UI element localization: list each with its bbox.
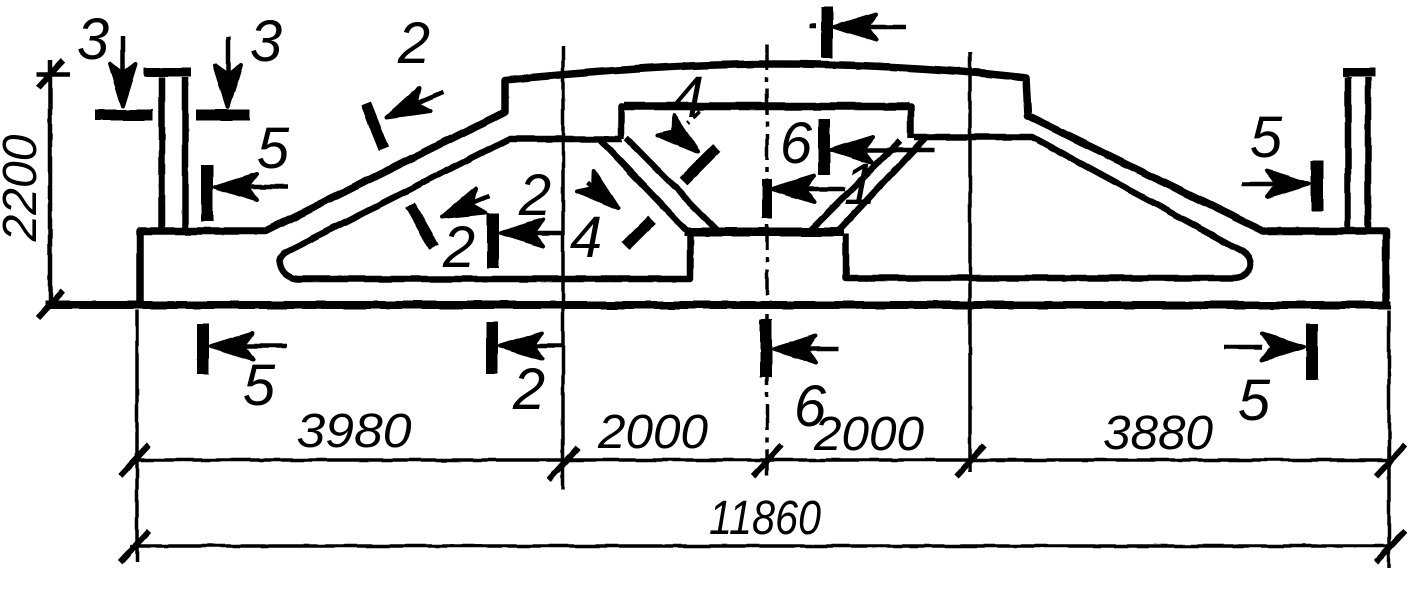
section mark 3 left: bar and down arrow <box>95 110 153 121</box>
node section line at x=970 <box>968 52 972 472</box>
section mark 5 right below slab: bar and right arrow <box>1306 324 1318 380</box>
svg-text:6: 6 <box>780 111 813 176</box>
svg-text:2: 2 <box>442 215 475 280</box>
section mark 4 upper: dashed leader, arrow, slanted bar <box>688 111 700 123</box>
wire dimension chain row 1 <box>137 458 1390 462</box>
svg-text:11860: 11860 <box>709 492 821 545</box>
section mark 6: bar and left arrow <box>818 119 830 175</box>
wire slab top centre segment <box>684 228 844 237</box>
svg-text:4: 4 <box>570 205 602 270</box>
svg-text:5: 5 <box>243 353 276 418</box>
section mark 3 right: bar and down arrow <box>196 110 250 121</box>
section mark 2 cavity horizontal: bar and arrow from axis <box>487 213 499 268</box>
wire left extension line x=137 <box>135 310 139 562</box>
svg-text:1: 1 <box>844 152 876 217</box>
svg-text:2000: 2000 <box>597 406 708 459</box>
section mark 5 right above slab: bar and right arrow <box>1311 160 1323 211</box>
svg-text:2: 2 <box>397 11 430 76</box>
wire slab bottom line <box>45 301 1391 309</box>
section mark 2 top: slanted bar and arrow <box>366 104 384 149</box>
svg-text:3: 3 <box>77 7 109 72</box>
svg-text:3880: 3880 <box>1103 407 1213 460</box>
wire right cavity outline <box>846 137 1251 278</box>
wire overall dimension row 2 <box>130 544 1392 548</box>
svg-text:2200: 2200 <box>0 134 47 242</box>
wire left-centre inclined rib <box>599 138 717 230</box>
svg-text:5: 5 <box>1238 368 1271 433</box>
wire left tab post <box>162 77 185 230</box>
wire right tab post <box>1348 77 1368 230</box>
svg-text:3: 3 <box>250 9 282 74</box>
section mark 4 lower: arrow and slanted bar <box>588 182 604 196</box>
node section line at x=563 <box>561 46 565 490</box>
svg-text:4: 4 <box>672 65 704 130</box>
wire vertical dimension line 2200 <box>48 60 53 306</box>
section mark 2 below slab: bar and left arrow from axis <box>486 322 498 374</box>
section mark top centre: bar and left arrow <box>821 7 833 58</box>
section mark 5 left below slab: bar and left arrow <box>197 324 209 374</box>
wire right-centre inclined rib <box>811 138 925 231</box>
svg-text:2: 2 <box>518 163 551 228</box>
svg-text:3980: 3980 <box>297 405 412 458</box>
svg-text:2000: 2000 <box>813 408 924 461</box>
section mark 1: bar on axis and left arrow <box>762 179 772 218</box>
wire left cavity outline <box>279 139 690 279</box>
node centre axis dash-dot line <box>765 44 769 480</box>
wire right extension line x=1389 <box>1387 310 1391 568</box>
svg-text:2: 2 <box>512 357 545 422</box>
svg-text:5: 5 <box>1250 105 1283 170</box>
section mark 5 left above slab: bar and left arrow <box>201 165 213 221</box>
wire central hat box <box>621 107 911 139</box>
section mark 6 below slab: bar on axis and left arrow <box>760 319 772 377</box>
svg-text:5: 5 <box>257 116 290 181</box>
wire main outline: slab edges, rib tops, arched roof <box>140 64 1386 308</box>
section mark 2 in cavity: slanted bar and arrow <box>410 205 434 247</box>
